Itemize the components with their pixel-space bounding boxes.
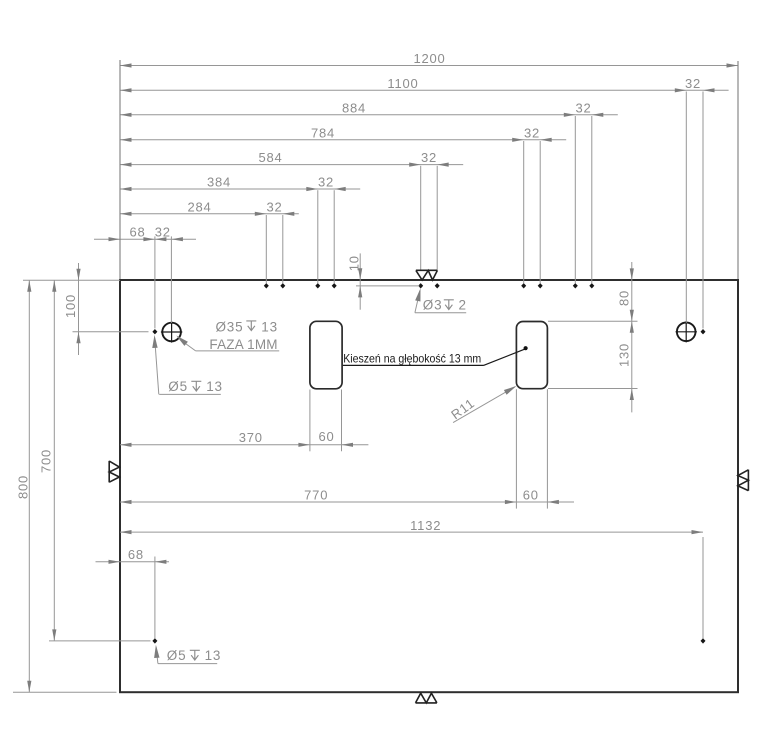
svg-text:884: 884 [342,100,366,115]
dimension 700 left [39,280,57,641]
svg-text:32: 32 [266,199,282,214]
machining symbol top edge (two triangles) [416,270,438,280]
svg-text:60: 60 [318,429,334,444]
extension line pocket2 bottom [548,388,638,390]
svg-text:370: 370 [239,430,263,445]
label D5 depth 13 top-left [152,335,223,395]
dimension 10 depth of hole row [347,253,363,309]
dimension 370 and 60 bottom pocket1 [120,429,368,447]
svg-text:784: 784 [311,125,335,140]
extension lines 584 columns [421,166,438,270]
dimension 284 top [120,199,299,216]
svg-text:2: 2 [459,298,467,313]
dimension 80 right [616,262,633,412]
svg-text:770: 770 [304,488,328,503]
extension line hole row [356,285,419,287]
svg-text:32: 32 [575,100,591,115]
svg-text:13: 13 [206,379,223,394]
svg-text:Kieszeń na głębokość 13 mm: Kieszeń na głębokość 13 mm [343,352,481,366]
extension line pocket2 top [548,320,638,322]
extension line top edge to left [23,279,120,281]
dimension 68 bottom [96,547,170,564]
svg-text:Ø35: Ø35 [216,320,244,335]
dimension 784 top [120,125,566,142]
svg-text:32: 32 [318,175,334,190]
hole D35 left circle [161,321,182,342]
svg-text:284: 284 [187,199,211,214]
svg-text:1200: 1200 [413,51,445,66]
extension line bottom edge to left [13,691,117,693]
extension lines 884 columns [575,116,592,283]
dimension 584 top [120,150,463,167]
label Kieszen pocket depth note [343,346,528,366]
svg-text:384: 384 [207,175,231,190]
extension lines 784 columns [524,141,541,283]
svg-text:1100: 1100 [387,76,418,91]
dimension 800 left [15,280,31,692]
svg-text:32: 32 [421,150,437,165]
hole D35 right circle [676,321,697,342]
extension lines pocket1 bottom columns [310,390,342,452]
label D35 depth 13 with FAZA 1MM [174,320,279,352]
svg-text:FAZA 1MM: FAZA 1MM [209,337,277,352]
label D3 depth 2 [415,288,467,313]
svg-text:13: 13 [205,648,222,663]
svg-text:100: 100 [63,294,78,318]
svg-text:68: 68 [128,547,144,562]
svg-text:Ø5: Ø5 [167,648,187,663]
svg-text:80: 80 [616,290,631,306]
extension line 100 hole row [73,331,149,333]
machining symbol right edge (two triangles) [738,470,749,491]
svg-text:800: 800 [15,475,30,499]
hole point D5 bottom-left [152,638,157,643]
dimension 68 / 32 top row [94,224,196,241]
extension lines 68/32 columns [155,236,172,328]
extension line 1132 column down [702,537,704,639]
extension lines 1100/1132 columns [686,92,703,329]
svg-text:60: 60 [523,488,539,503]
machining symbol bottom edge (two triangles) [416,693,437,703]
extension line left edge top [119,60,121,279]
extension line 68 bottom column down [154,557,156,639]
svg-text:130: 130 [616,343,631,367]
svg-text:32: 32 [524,125,540,140]
svg-text:Ø5: Ø5 [168,379,188,394]
svg-text:13: 13 [261,320,278,335]
extension lines 284 columns [266,215,283,283]
svg-text:Ø3: Ø3 [423,298,443,313]
dimension 130 right [616,321,633,400]
dimension 1100 top [120,76,729,93]
hole point D5 top-left [152,329,157,334]
hole point bottom-right [701,638,706,643]
machining symbol left edge (two triangles) [109,461,119,483]
svg-text:584: 584 [258,150,282,165]
svg-text:32: 32 [685,76,701,91]
svg-text:32: 32 [155,224,171,239]
svg-text:10: 10 [347,255,362,271]
dimension 884 top [120,100,618,117]
extension line 700 bottom [49,640,151,642]
extension lines pocket2 bottom columns [516,389,547,508]
dimension 100 left [63,263,80,355]
svg-text:68: 68 [129,224,145,239]
label R11 pocket corner radius [448,384,518,423]
hole point right of D35 right [701,329,706,334]
pocket 1 (60x130 slot left) [310,321,342,389]
dimension 770 and 60 bottom pocket2 [120,488,574,505]
hole points D3 row [264,283,595,288]
label D5 depth 13 bottom-left [153,645,221,664]
dimension 1132 bottom [120,518,703,534]
dimension 1200 top [120,51,738,68]
extension line right edge top [737,61,739,279]
extension lines 384 columns [318,190,334,283]
pocket 2 (60x130 slot right) [516,322,547,389]
svg-text:700: 700 [39,449,54,473]
svg-text:1132: 1132 [410,518,441,533]
panel outline 1200x800 plate [120,280,738,692]
dimension 384 top [120,175,360,192]
